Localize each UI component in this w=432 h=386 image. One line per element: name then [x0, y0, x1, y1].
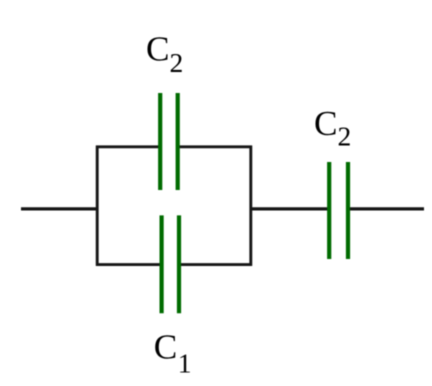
svg-text:C: C [154, 327, 177, 366]
svg-text:2: 2 [338, 120, 352, 151]
wire rectangle top edge left part [96, 145, 161, 148]
wire rectangle bottom edge left part [96, 263, 163, 266]
capacitor C2 right: right plate [346, 162, 350, 259]
wire rectangle right edge [249, 146, 252, 266]
svg-text:C: C [146, 30, 169, 69]
wire rectangle left edge [96, 146, 99, 266]
wire middle (rectangle to right capacitor) [251, 207, 330, 210]
capacitor C2 top: left plate [158, 93, 162, 190]
capacitor C2 top: right plate [176, 93, 180, 190]
svg-text:1: 1 [178, 347, 192, 378]
wire right lead [347, 207, 424, 210]
capacitor C2 right: left plate [327, 162, 331, 259]
svg-text:2: 2 [170, 47, 184, 78]
wire rectangle top edge right part [177, 145, 252, 148]
wire rectangle bottom edge right part [178, 263, 252, 266]
wire left lead [21, 207, 97, 210]
svg-text:C: C [314, 104, 337, 143]
capacitor C1 bottom: right plate [177, 215, 181, 313]
capacitor C1 bottom: left plate [160, 215, 164, 313]
